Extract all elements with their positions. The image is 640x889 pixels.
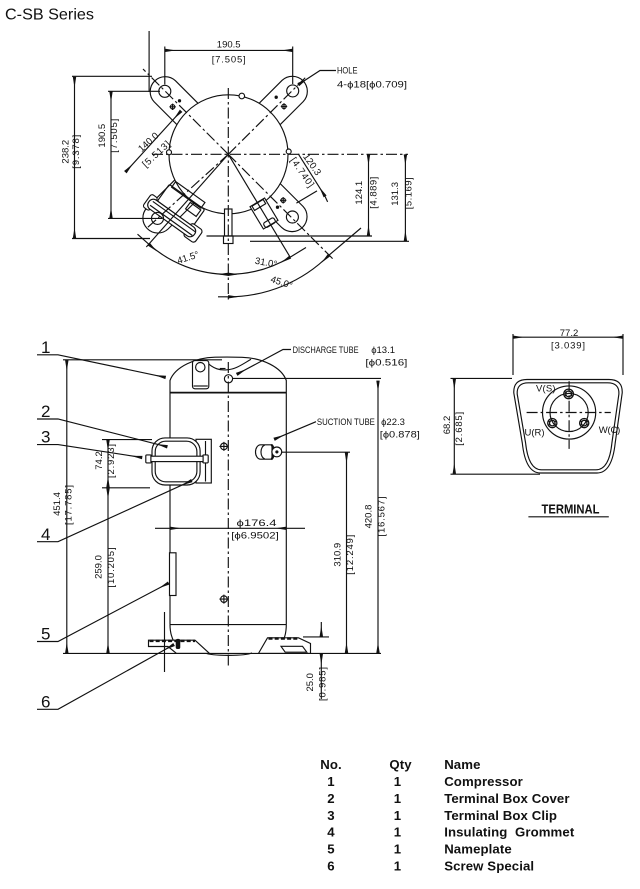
svg-text:TERMINAL: TERMINAL bbox=[542, 501, 600, 516]
svg-text:[7.505]: [7.505] bbox=[212, 55, 246, 66]
svg-text:[0.985]: [0.985] bbox=[318, 667, 329, 701]
svg-text:1: 1 bbox=[394, 859, 401, 874]
svg-text:Name: Name bbox=[444, 757, 480, 772]
svg-text:1: 1 bbox=[327, 774, 334, 789]
svg-text:2: 2 bbox=[327, 791, 334, 806]
svg-text:Qty: Qty bbox=[389, 757, 412, 772]
svg-text:5: 5 bbox=[41, 625, 50, 644]
svg-text:Insulating Grommet: Insulating Grommet bbox=[444, 825, 575, 840]
svg-text:[ϕ0.516]: [ϕ0.516] bbox=[365, 358, 407, 369]
svg-text:[12.249]: [12.249] bbox=[345, 535, 356, 575]
svg-text:Terminal Box Clip: Terminal Box Clip bbox=[444, 808, 557, 823]
svg-text:68.2: 68.2 bbox=[442, 416, 453, 435]
svg-text:4: 4 bbox=[41, 525, 50, 544]
svg-text:Compressor: Compressor bbox=[444, 774, 523, 789]
svg-text:1: 1 bbox=[394, 825, 401, 840]
svg-text:[ϕ6.9502]: [ϕ6.9502] bbox=[231, 530, 279, 541]
svg-text:190.5: 190.5 bbox=[217, 40, 241, 51]
svg-text:1: 1 bbox=[394, 842, 401, 857]
svg-text:45.0°: 45.0° bbox=[269, 274, 294, 291]
svg-text:[3.039]: [3.039] bbox=[551, 341, 585, 352]
svg-text:Terminal Box Cover: Terminal Box Cover bbox=[444, 791, 569, 806]
svg-text:131.3: 131.3 bbox=[390, 182, 401, 206]
svg-text:77.2: 77.2 bbox=[560, 328, 579, 339]
svg-text:6: 6 bbox=[327, 859, 334, 874]
svg-text:[5.169]: [5.169] bbox=[404, 177, 415, 209]
svg-text:[7.505]: [7.505] bbox=[109, 119, 120, 153]
svg-text:ϕ13.1: ϕ13.1 bbox=[371, 345, 395, 356]
svg-text:1: 1 bbox=[394, 774, 401, 789]
svg-text:SUCTION TUBE: SUCTION TUBE bbox=[317, 417, 375, 428]
svg-text:6: 6 bbox=[41, 692, 50, 711]
svg-text:U(R): U(R) bbox=[525, 428, 545, 439]
svg-text:190.5: 190.5 bbox=[97, 124, 108, 148]
svg-text:[9.378]: [9.378] bbox=[71, 135, 82, 169]
svg-text:420.8: 420.8 bbox=[364, 505, 375, 529]
svg-text:4-ϕ18[ϕ0.709]: 4-ϕ18[ϕ0.709] bbox=[337, 80, 407, 91]
svg-text:[10.205]: [10.205] bbox=[106, 548, 117, 588]
svg-text:451.4: 451.4 bbox=[52, 492, 63, 516]
svg-text:5: 5 bbox=[327, 842, 334, 857]
svg-text:No.: No. bbox=[320, 757, 342, 772]
svg-text:2: 2 bbox=[41, 402, 50, 421]
svg-text:Nameplate: Nameplate bbox=[444, 842, 512, 857]
svg-text:1: 1 bbox=[394, 808, 401, 823]
svg-text:ϕ176.4: ϕ176.4 bbox=[237, 518, 277, 529]
svg-text:3: 3 bbox=[41, 428, 50, 447]
svg-text:25.0: 25.0 bbox=[305, 673, 316, 692]
svg-text:ϕ22.3: ϕ22.3 bbox=[381, 417, 405, 428]
svg-text:DISCHARGE TUBE: DISCHARGE TUBE bbox=[293, 345, 359, 356]
svg-text:Screw Special: Screw Special bbox=[444, 859, 534, 874]
svg-text:[4.889]: [4.889] bbox=[369, 177, 380, 209]
svg-text:3: 3 bbox=[327, 808, 334, 823]
svg-text:C-SB Series: C-SB Series bbox=[5, 7, 94, 24]
svg-text:[ϕ0.878]: [ϕ0.878] bbox=[380, 430, 420, 441]
svg-text:74.2: 74.2 bbox=[94, 451, 105, 470]
svg-text:[2.923]: [2.923] bbox=[106, 444, 117, 478]
svg-text:[2.685]: [2.685] bbox=[454, 412, 465, 446]
svg-text:[16.567]: [16.567] bbox=[377, 497, 388, 537]
svg-text:124.1: 124.1 bbox=[354, 181, 365, 205]
svg-text:259.0: 259.0 bbox=[94, 555, 105, 579]
svg-text:V(S): V(S) bbox=[536, 384, 556, 395]
svg-text:HOLE: HOLE bbox=[337, 66, 358, 76]
svg-text:4: 4 bbox=[327, 825, 335, 840]
svg-text:1: 1 bbox=[394, 791, 401, 806]
svg-text:1: 1 bbox=[41, 338, 50, 357]
svg-text:[17.785]: [17.785] bbox=[63, 485, 74, 525]
svg-text:31.0°: 31.0° bbox=[254, 256, 278, 271]
svg-text:310.9: 310.9 bbox=[333, 543, 344, 567]
svg-text:W(C): W(C) bbox=[599, 425, 621, 436]
svg-text:41.5°: 41.5° bbox=[176, 249, 201, 266]
svg-text:238.2: 238.2 bbox=[60, 140, 71, 164]
